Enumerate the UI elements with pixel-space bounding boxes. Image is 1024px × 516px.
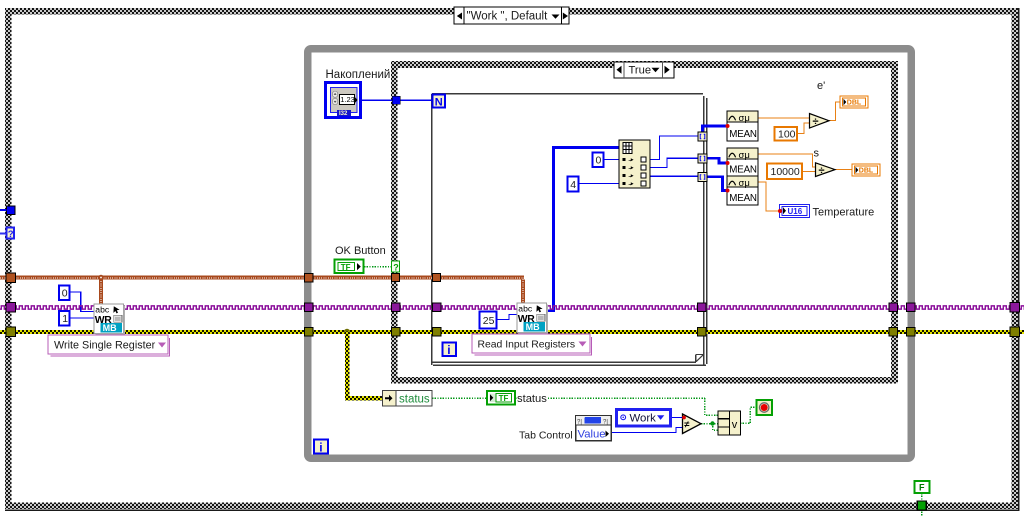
True case selector terminal ? [392,261,400,272]
svg-text:i: i [319,441,322,455]
svg-text:abc: abc [518,304,533,314]
wire index array out1 to tunnel1 [650,136,698,160]
index array node [619,140,650,188]
svg-text:σμ: σμ [739,150,750,161]
svg-text:?|: ?| [603,420,608,426]
DBL indicator 1 [840,96,868,108]
svg-text:status: status [517,393,547,405]
wire divide1 to DBL indicator 1 [829,102,840,121]
svg-text:1: 1 [62,313,68,325]
orange wire branch down to WR node [99,280,103,305]
svg-text:?: ? [393,262,399,272]
tunnel error outer case right [1010,327,1020,337]
svg-text:i: i [447,343,450,357]
tunnel error for loop right [698,327,707,336]
svg-text:TF: TF [499,394,509,403]
compound OR node [718,411,741,435]
tunnel purple for loop right [698,303,707,312]
svg-text:σμ: σμ [739,113,750,124]
svg-text:MEAN: MEAN [729,193,757,204]
svg-text:Write Single Register: Write Single Register [54,340,156,352]
outer case right border [1012,8,1019,509]
divide node 1 [810,114,830,129]
DBL indicator 2 [852,164,880,176]
tunnel error outer case left [6,327,16,337]
wire F constant down through tunnel [921,493,923,516]
wire divide2 to DBL indicator 2 [835,169,852,171]
wire Work enum to not-equal node [671,417,682,419]
tunnel orange outer case left [6,273,16,283]
svg-text:TF: TF [341,263,351,272]
svg-text:?: ? [8,229,14,240]
svg-text:÷: ÷ [819,165,825,177]
label status [517,391,548,405]
outer case left border [5,8,12,509]
const 1 [59,311,70,326]
tunnel orange for loop left [433,273,441,281]
orange wire turn down into RD node [521,280,525,304]
svg-text:"Work ", Default: "Work ", Default [467,11,549,23]
outer while loop edge lines right+bottom [1018,8,1020,511]
wire into ? terminal [0,233,6,235]
svg-text:status: status [399,394,430,406]
WR MB node 1 [94,304,125,335]
TF indicator status [487,391,515,405]
svg-text:MEAN: MEAN [729,129,757,140]
svg-text:0: 0 [62,287,68,299]
orange tunnels [6,273,441,283]
outer case bottom border [5,503,1018,510]
wire numeric control to N terminal [361,99,432,101]
wire index array out3 to tunnel3 [650,175,698,177]
green junction dot [710,421,714,425]
wire const 25 to RD modbus node [497,315,517,320]
neq node [682,414,701,434]
svg-text:MB: MB [103,323,117,333]
wire index array out2 to tunnel2 [650,158,698,167]
const 0 [59,286,70,301]
error wire (yellow/black) across [0,330,1024,334]
wire MEAN2 to divide2 [758,154,815,167]
svg-text:abc: abc [95,305,110,315]
purple network wire across [0,305,1024,310]
svg-text:v: v [732,419,738,431]
svg-text:Накоплений: Накоплений [326,69,391,81]
svg-text:Temperature: Temperature [813,207,875,219]
for loop fold corner [696,355,703,363]
MEAN node 3 [726,176,759,205]
wire const 1 to WR modbus node [69,317,94,319]
combo Read Input Registers [472,334,592,355]
const 100 [775,127,798,141]
outer case top border [5,8,1018,15]
svg-text:Value: Value [578,428,606,440]
Work enum constant [617,410,671,427]
svg-text:4: 4 [570,179,576,191]
RD MB node [517,303,548,334]
error wire branch down [345,332,350,401]
tunnel error True case left [392,327,401,336]
tunnel purple True case right [889,303,898,312]
wire tunnel3 to MEAN3 [707,177,727,191]
wire branch to OR bottom input [713,424,719,431]
thick blue array wires [545,126,727,311]
svg-text:100: 100 [778,128,796,140]
stop button terminal [757,400,773,415]
wire tunnel2 to MEAN2 [707,158,727,163]
wire unbundle status to TF indicator [432,397,486,399]
wire idx const 0 to index array [604,159,619,161]
while loop border [308,49,912,459]
wire OR out to stop terminal [740,407,756,423]
True case top border [391,61,898,68]
F constant [915,481,930,493]
svg-text:N: N [435,97,443,109]
tunnel error for loop left [433,327,442,336]
svg-text:DBL: DBL [859,168,874,175]
tunnel purple outer case left [6,302,16,312]
purple tunnels [6,302,1020,312]
tunnel purple for loop left [433,303,442,312]
svg-text:MEAN: MEAN [729,164,757,175]
MEAN node 1 [726,111,759,141]
tunnel purple while loop right [907,303,916,312]
outer case selector terminal ? [7,228,15,241]
wire OK Button to case selector ? [364,266,391,268]
divide node 2 [816,163,836,177]
const 25 [480,312,497,329]
N terminal [433,95,446,109]
orange modbus class wire horizontal [0,276,524,280]
error wire branch right to unbundle [345,396,383,401]
svg-text:True: True [629,65,652,77]
svg-text:25: 25 [483,315,495,327]
wire const 10000 to divide2 [802,171,815,173]
True case selector label [614,62,674,78]
green tunnel on outer bottom border [917,501,926,510]
wire const 100 to divide1 [797,123,809,134]
svg-text:σμ: σμ [739,178,750,189]
blue tunnel on True case for numeric wire [392,96,400,104]
numeric control Накоплений [326,83,361,118]
svg-text:I32: I32 [339,111,348,117]
for loop i terminal [443,343,457,357]
svg-text:≠: ≠ [684,420,690,431]
wire status drop into OR top input [705,398,718,415]
tunnel orange while loop left [305,273,314,282]
wire into blue tunnel [0,209,7,211]
svg-text:DBL: DBL [847,100,862,107]
tunnel orange True case left [392,273,400,281]
blue tunnel on outer left border [7,206,16,215]
svg-text:÷: ÷ [813,116,819,128]
property node Tab Control [576,416,612,441]
wire const 0 to WR modbus node [69,292,94,312]
True case bottom border [391,377,898,384]
svg-text:?|: ?| [577,420,582,426]
tunnel purple True case left [392,303,401,312]
tunnel error while loop left [305,327,314,336]
error wire junction [344,329,350,335]
OK Button terminal [335,260,364,274]
wire MEAN3 to U16 indicator [758,182,779,211]
svg-text:F: F [919,483,925,493]
svg-text:1.23: 1.23 [340,95,355,104]
outer case selector label "Work", Default [454,7,569,24]
tunnel error while loop right [907,327,916,336]
olive tunnels [6,327,1020,337]
svg-text:e': e' [817,80,825,92]
True case left border [391,61,398,384]
while loop i terminal [314,440,328,455]
svg-text:MB: MB [526,322,540,332]
tunnel purple outer case right [1010,302,1020,312]
svg-text:s: s [814,148,820,160]
tunnel purple while loop left [305,303,314,312]
idx const 0 [593,153,604,168]
wire const 4 to index array [579,183,619,185]
wire status onward to OR node [516,397,705,399]
const 4 [568,177,579,192]
svg-text:10000: 10000 [771,166,800,178]
combo Write Single Register [48,335,170,356]
U16 indicator [778,205,810,218]
orange junction dot [98,275,104,281]
svg-text:Work: Work [630,413,657,425]
const 10000 [767,164,802,180]
svg-text:Tab Control: Tab Control [519,430,573,442]
wire not-equal out to OR middle input [701,423,718,425]
wire MEAN1 to divide1 [758,117,809,119]
index tunnels on for loop right [698,132,707,182]
svg-text:0: 0 [596,155,602,167]
wire array RD node to index array [545,148,619,311]
svg-text:OK Button: OK Button [335,245,386,257]
wire tunnel1 to MEAN1 [703,126,728,133]
svg-text:Read Input Registers: Read Input Registers [478,340,576,351]
MEAN node 2 [726,148,759,176]
wire Value property to not-equal node [611,428,682,433]
tunnel error True case right [889,327,898,336]
svg-text:U16: U16 [788,207,803,216]
True case right border [891,61,898,384]
unbundle status node [383,391,433,407]
